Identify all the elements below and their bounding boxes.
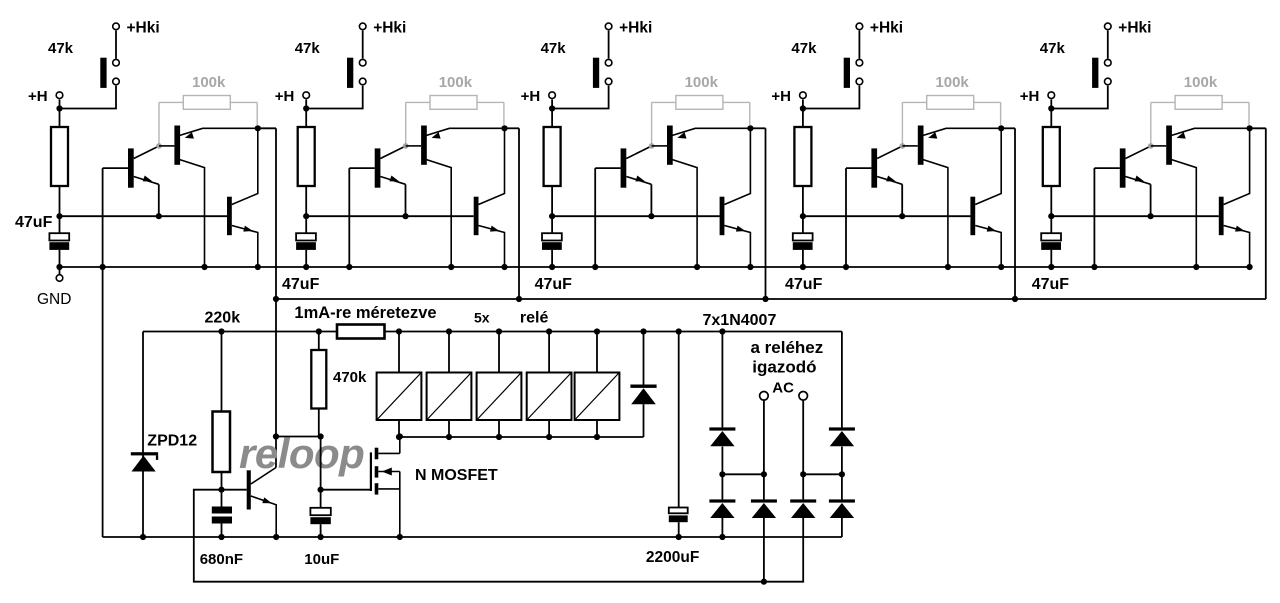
svg-text:+H: +H bbox=[1020, 88, 1040, 105]
svg-text:10uF: 10uF bbox=[304, 551, 339, 568]
svg-text:47uF: 47uF bbox=[785, 276, 823, 293]
svg-text:220k: 220k bbox=[205, 310, 241, 327]
svg-text:+H: +H bbox=[28, 88, 48, 105]
svg-text:relé: relé bbox=[520, 310, 549, 327]
svg-text:47k: 47k bbox=[48, 40, 74, 57]
svg-text:47uF: 47uF bbox=[1032, 276, 1070, 293]
svg-text:+H: +H bbox=[771, 88, 791, 105]
svg-text:1mA-re méretezve: 1mA-re méretezve bbox=[294, 304, 436, 322]
svg-text:47uF: 47uF bbox=[535, 276, 573, 293]
svg-text:AC: AC bbox=[772, 380, 794, 397]
svg-text:100k: 100k bbox=[685, 74, 719, 91]
svg-text:2200uF: 2200uF bbox=[646, 549, 699, 566]
svg-text:100k: 100k bbox=[1184, 74, 1218, 91]
svg-text:+Hki: +Hki bbox=[870, 20, 903, 37]
svg-text:+Hki: +Hki bbox=[127, 20, 160, 37]
svg-text:+Hki: +Hki bbox=[619, 20, 652, 37]
svg-text:+H: +H bbox=[275, 88, 295, 105]
svg-text:+H: +H bbox=[521, 88, 541, 105]
svg-text:47uF: 47uF bbox=[15, 214, 53, 231]
svg-text:100k: 100k bbox=[935, 74, 969, 91]
svg-text:47k: 47k bbox=[791, 40, 817, 57]
svg-text:N MOSFET: N MOSFET bbox=[415, 467, 498, 484]
svg-text:igazodó: igazodó bbox=[752, 358, 816, 377]
svg-text:+Hki: +Hki bbox=[373, 20, 406, 37]
svg-text:680nF: 680nF bbox=[200, 551, 243, 568]
svg-text:100k: 100k bbox=[192, 74, 226, 91]
svg-text:ZPD12: ZPD12 bbox=[147, 433, 197, 450]
svg-text:47uF: 47uF bbox=[282, 276, 320, 293]
svg-text:47k: 47k bbox=[1040, 40, 1066, 57]
svg-text:7x1N4007: 7x1N4007 bbox=[703, 312, 777, 329]
svg-text:47k: 47k bbox=[295, 40, 321, 57]
svg-text:47k: 47k bbox=[541, 40, 567, 57]
svg-text:5x: 5x bbox=[474, 310, 490, 326]
svg-text:+Hki: +Hki bbox=[1118, 20, 1151, 37]
svg-text:100k: 100k bbox=[439, 74, 473, 91]
svg-text:470k: 470k bbox=[333, 369, 367, 386]
svg-text:GND: GND bbox=[37, 291, 71, 308]
svg-text:a reléhez: a reléhez bbox=[751, 338, 824, 357]
